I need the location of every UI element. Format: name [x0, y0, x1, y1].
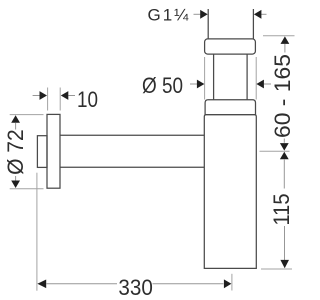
trap body	[204, 115, 256, 269]
svg-text:Ø 50: Ø 50	[142, 73, 183, 98]
dimension 330 extension lines	[37, 173, 232, 291]
top cap nut	[205, 39, 256, 54]
dimension 115 extension line	[261, 268, 292, 270]
svg-text:G1¼: G1¼	[148, 5, 191, 24]
dimension O 72 arrows and line	[11, 115, 20, 188]
wall pipe stub	[37, 136, 47, 168]
dimension G1 1/4 arrows	[194, 10, 267, 19]
G1 1/4 inlet pipe outline	[208, 9, 253, 39]
wall flange	[47, 114, 60, 188]
svg-text:115: 115	[269, 194, 294, 226]
dimension 115 arrows and lines	[280, 152, 289, 268]
svg-text:Ø 72: Ø 72	[3, 129, 28, 175]
dimension O 50 extension lines	[205, 57, 257, 100]
dimension O 72 extension lines	[10, 115, 44, 189]
svg-text:330: 330	[118, 275, 153, 300]
dimension O 50 arrows	[190, 80, 271, 89]
svg-text:60 - 165: 60 - 165	[270, 54, 295, 138]
neck tube	[214, 54, 248, 100]
dimension 60 - 165 arrows	[280, 36, 289, 150]
horizontal waste pipe	[60, 135, 204, 167]
dimension 330 arrows and lines	[37, 279, 231, 288]
dimension 60 - 165 extension lines	[260, 36, 295, 151]
dimension 10 arrows	[33, 91, 75, 100]
lower cap nut	[205, 100, 255, 115]
svg-text:10: 10	[77, 87, 98, 112]
dimension 10 extension lines	[48, 88, 61, 111]
